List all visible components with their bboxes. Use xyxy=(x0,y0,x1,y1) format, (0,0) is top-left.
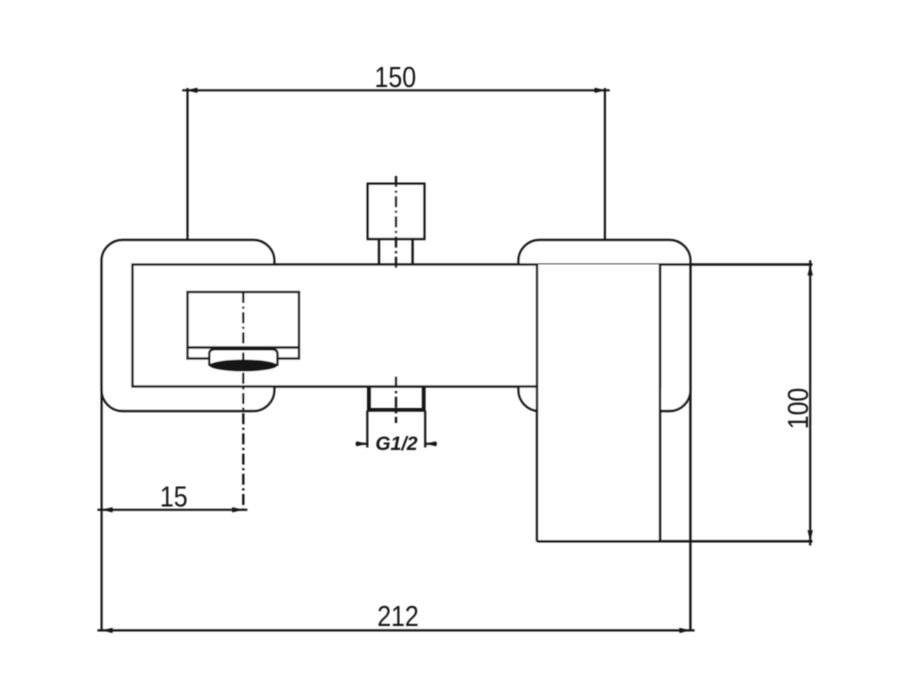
handle inner edge xyxy=(659,265,661,542)
svg-text:G1/2: G1/2 xyxy=(375,433,417,455)
G1/2 arrows xyxy=(356,441,367,446)
handle bottom edge + extension to 100-dim xyxy=(537,540,813,542)
top shower outlet fitting xyxy=(368,184,425,239)
dimension 100: line xyxy=(809,260,811,545)
dim 15 arrows xyxy=(102,507,113,512)
dimension 150: line xyxy=(97,88,810,630)
right escutcheon (wall flange) xyxy=(519,240,691,411)
dim 212 arrows xyxy=(102,628,113,633)
handle left edge xyxy=(536,265,538,542)
spout block xyxy=(188,292,300,359)
dim 150 extension lines xyxy=(186,88,188,240)
top fitting stem xyxy=(378,239,380,265)
left vertical extension (212) xyxy=(100,386,102,630)
handle lever (white cover) xyxy=(537,265,660,542)
dim 150 arrows xyxy=(186,88,197,93)
centerline bottom fitting xyxy=(395,377,397,424)
aerator outlet ellipse xyxy=(209,360,277,372)
arrowheads xyxy=(102,88,813,634)
svg-text:212: 212 xyxy=(377,600,419,632)
mixer main body xyxy=(133,265,661,387)
dimension 212: line xyxy=(97,629,694,631)
svg-text:150: 150 xyxy=(375,61,417,93)
right outer vertical (escutcheon edge / extension to 212) xyxy=(689,265,691,631)
G1/2 extension lines xyxy=(366,411,368,448)
bottom G1/2 fitting (thick lines) xyxy=(367,387,426,410)
centerline top fitting xyxy=(395,176,397,270)
svg-text:15: 15 xyxy=(160,481,188,513)
left escutcheon (wall flange) xyxy=(102,240,275,411)
svg-text:100: 100 xyxy=(782,388,814,430)
aerator cylinder xyxy=(209,349,277,366)
spout inner step line xyxy=(188,346,300,348)
dim 100 arrows xyxy=(808,265,813,276)
dimension 15: line xyxy=(97,509,247,511)
body top line extension to 100-dim xyxy=(660,263,813,265)
G1/2 dim tails xyxy=(356,443,368,445)
centerline spout xyxy=(242,292,244,510)
